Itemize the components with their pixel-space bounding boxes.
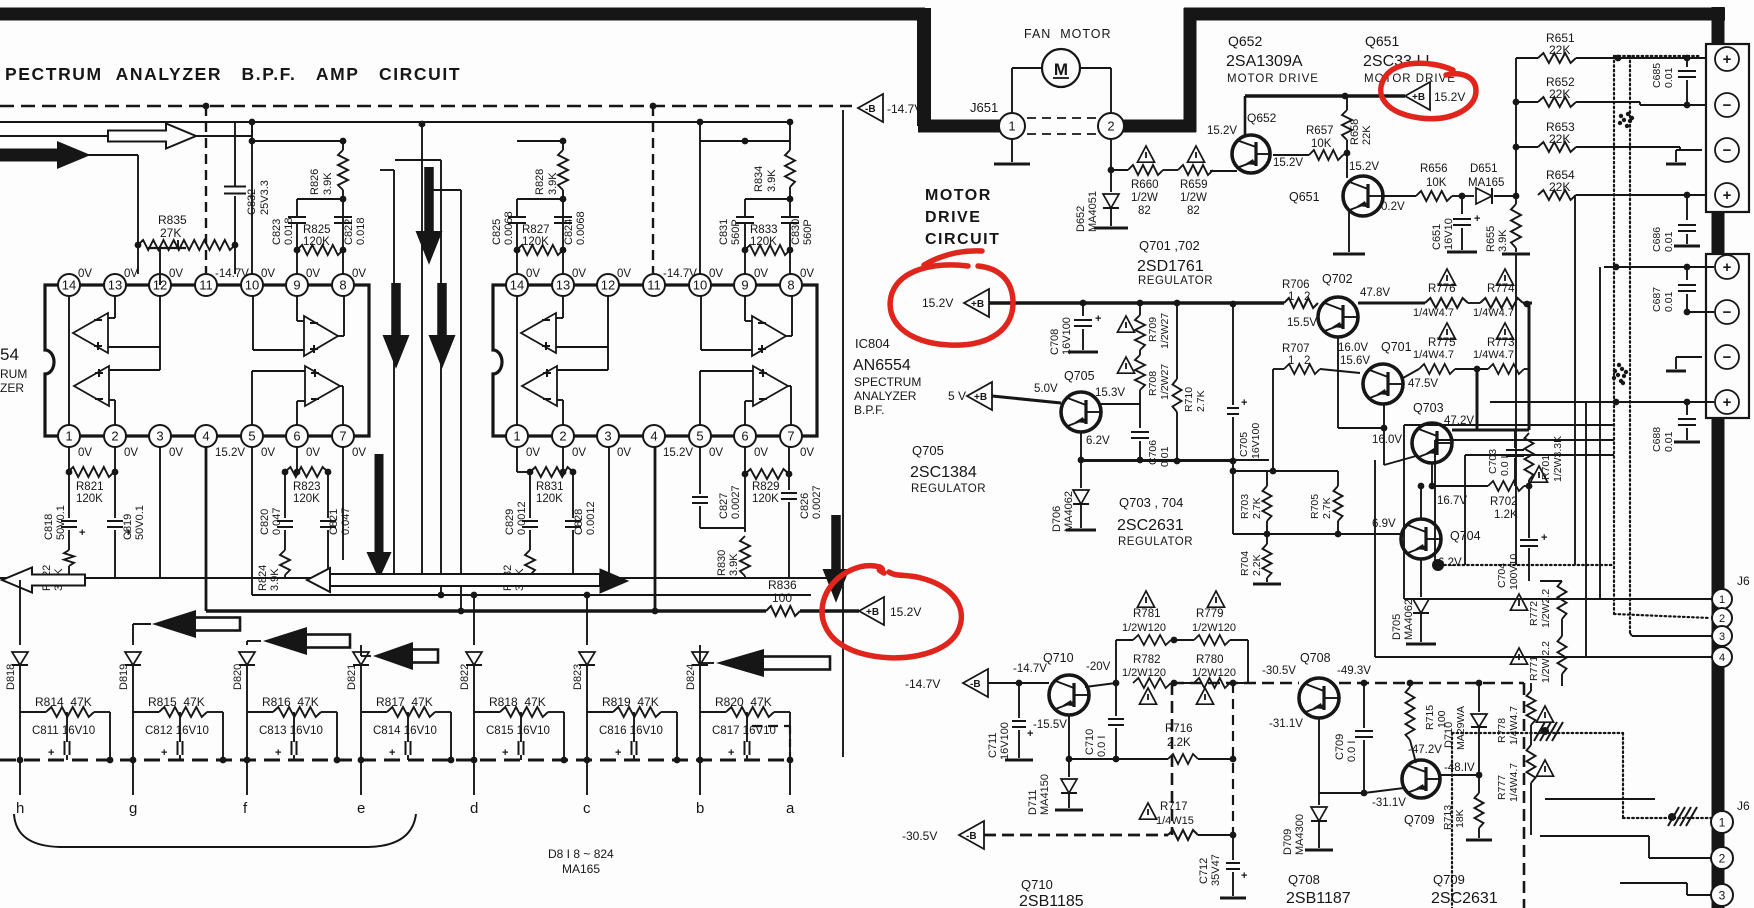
svg-text:C825: C825 bbox=[491, 219, 503, 245]
svg-text:+: + bbox=[79, 527, 85, 539]
svg-text:1/2W2.2: 1/2W2.2 bbox=[1540, 589, 1552, 628]
svg-text:Q702: Q702 bbox=[1322, 272, 1353, 286]
svg-text:+: + bbox=[1723, 51, 1732, 68]
svg-text:0V: 0V bbox=[78, 268, 92, 280]
svg-text:0.0 I: 0.0 I bbox=[1096, 736, 1108, 757]
svg-text:1: 1 bbox=[65, 429, 72, 444]
svg-text:e: e bbox=[357, 800, 365, 817]
svg-text:1.2K: 1.2K bbox=[1494, 509, 1518, 521]
svg-text:0V: 0V bbox=[526, 447, 540, 459]
svg-text:3.9K: 3.9K bbox=[269, 568, 281, 591]
svg-text:REGULATOR: REGULATOR bbox=[1138, 275, 1213, 287]
svg-text:0V: 0V bbox=[617, 447, 631, 459]
svg-text:0V: 0V bbox=[124, 268, 138, 280]
svg-text:MOTOR DRIVE: MOTOR DRIVE bbox=[1364, 73, 1456, 85]
svg-text:R827: R827 bbox=[522, 224, 550, 236]
svg-text:Q651: Q651 bbox=[1289, 190, 1320, 204]
svg-text:1/4W15: 1/4W15 bbox=[1156, 815, 1194, 827]
svg-text:2.2K: 2.2K bbox=[1167, 737, 1191, 749]
svg-text:+B: +B bbox=[1412, 92, 1425, 103]
svg-text:0.01: 0.01 bbox=[1663, 291, 1675, 312]
svg-text:3.9K: 3.9K bbox=[1497, 229, 1509, 252]
svg-text:47.5V: 47.5V bbox=[1408, 378, 1438, 390]
svg-text:15.2V: 15.2V bbox=[890, 605, 921, 619]
svg-text:D8 I 8 ~ 824: D8 I 8 ~ 824 bbox=[548, 847, 614, 861]
svg-text:4: 4 bbox=[650, 429, 657, 444]
svg-text:2: 2 bbox=[559, 429, 566, 444]
svg-text:DRIVE: DRIVE bbox=[925, 209, 981, 226]
svg-text:1/4W4.7: 1/4W4.7 bbox=[1508, 763, 1520, 802]
svg-text:0.0068: 0.0068 bbox=[575, 211, 587, 245]
svg-text:13: 13 bbox=[556, 278, 570, 293]
svg-text:C710: C710 bbox=[1084, 729, 1096, 755]
svg-text:560P: 560P bbox=[802, 219, 814, 245]
svg-text:0.0 I: 0.0 I bbox=[1499, 456, 1511, 476]
svg-text:D819: D819 bbox=[118, 664, 130, 690]
svg-text:Q703: Q703 bbox=[1413, 401, 1444, 415]
svg-text:2SC1384: 2SC1384 bbox=[910, 464, 977, 481]
svg-text:0V: 0V bbox=[754, 268, 768, 280]
svg-text:MA165: MA165 bbox=[562, 862, 600, 876]
svg-text:C811 16V10: C811 16V10 bbox=[32, 725, 95, 737]
svg-text:2.7K: 2.7K bbox=[1321, 497, 1333, 519]
svg-text:1: 1 bbox=[1719, 594, 1725, 606]
svg-text:-30.5V: -30.5V bbox=[1262, 665, 1296, 677]
svg-text:15.2V: 15.2V bbox=[1273, 157, 1303, 169]
svg-text:+: + bbox=[1723, 394, 1732, 411]
svg-text:0.0012: 0.0012 bbox=[585, 501, 597, 535]
svg-text:25V3.3: 25V3.3 bbox=[259, 180, 271, 215]
svg-text:C704: C704 bbox=[1496, 563, 1508, 588]
svg-text:C816 16V10: C816 16V10 bbox=[599, 725, 663, 737]
svg-text:11: 11 bbox=[199, 278, 213, 293]
svg-text:3.9K: 3.9K bbox=[322, 172, 334, 195]
svg-text:C813 16V10: C813 16V10 bbox=[259, 725, 323, 737]
svg-text:D821: D821 bbox=[346, 664, 358, 690]
svg-text:g: g bbox=[129, 800, 137, 817]
svg-text:0V: 0V bbox=[617, 268, 631, 280]
svg-text:AN6554: AN6554 bbox=[853, 357, 911, 374]
svg-text:R825: R825 bbox=[303, 224, 331, 236]
svg-text:0V: 0V bbox=[800, 268, 814, 280]
svg-text:R655: R655 bbox=[1485, 226, 1497, 252]
svg-text:+: + bbox=[1474, 213, 1480, 225]
svg-text:c: c bbox=[583, 800, 591, 817]
svg-text:4: 4 bbox=[1719, 652, 1725, 664]
svg-text:h: h bbox=[16, 800, 24, 817]
svg-text:+: + bbox=[502, 747, 508, 759]
svg-text:15.2V: 15.2V bbox=[663, 447, 693, 459]
svg-text:-14.7V: -14.7V bbox=[905, 677, 940, 691]
svg-text:2: 2 bbox=[1719, 851, 1726, 865]
svg-text:4: 4 bbox=[202, 429, 209, 444]
svg-text:−: − bbox=[1723, 349, 1732, 366]
svg-text:+: + bbox=[728, 747, 734, 759]
svg-text:0.01: 0.01 bbox=[1663, 67, 1675, 88]
svg-text:120K: 120K bbox=[536, 493, 563, 505]
svg-text:Q709: Q709 bbox=[1404, 813, 1435, 827]
svg-text:R771: R771 bbox=[1528, 656, 1540, 681]
svg-text:2: 2 bbox=[1107, 119, 1114, 134]
svg-text:15.2V: 15.2V bbox=[1349, 161, 1379, 173]
svg-text:5 V: 5 V bbox=[948, 389, 966, 403]
svg-text:16.0V: 16.0V bbox=[1372, 434, 1402, 446]
svg-text:D652: D652 bbox=[1075, 206, 1087, 232]
svg-text:Q705: Q705 bbox=[1064, 369, 1095, 383]
svg-text:PECTRUM ANALYZER B.P.F. A: PECTRUM ANALYZER B.P.F. AMP CIRCUIT bbox=[5, 64, 461, 84]
svg-text:C651: C651 bbox=[1431, 224, 1443, 250]
svg-text:0V: 0V bbox=[169, 268, 183, 280]
svg-text:16V10: 16V10 bbox=[1443, 218, 1455, 250]
svg-text:D823: D823 bbox=[572, 664, 584, 690]
svg-text:50V0.1: 50V0.1 bbox=[134, 505, 146, 540]
svg-text:REGULATOR: REGULATOR bbox=[911, 483, 986, 495]
svg-text:15.2V: 15.2V bbox=[215, 447, 245, 459]
svg-text:D818: D818 bbox=[5, 664, 17, 690]
svg-text:C711: C711 bbox=[987, 733, 999, 758]
svg-text:3: 3 bbox=[1719, 631, 1725, 643]
svg-text:0V: 0V bbox=[352, 447, 366, 459]
svg-text:1/2W: 1/2W bbox=[1180, 192, 1207, 204]
svg-text:0V: 0V bbox=[709, 268, 723, 280]
svg-text:14: 14 bbox=[62, 278, 76, 293]
svg-text:1 . 2: 1 . 2 bbox=[1288, 291, 1310, 303]
svg-text:15.2V: 15.2V bbox=[1434, 90, 1465, 104]
svg-text:B.P.F.: B.P.F. bbox=[854, 403, 884, 417]
svg-text:0V: 0V bbox=[261, 268, 275, 280]
svg-text:0V: 0V bbox=[261, 447, 275, 459]
svg-text:d: d bbox=[470, 800, 478, 817]
svg-text:R772: R772 bbox=[1528, 601, 1540, 626]
svg-text:C815 16V10: C815 16V10 bbox=[486, 725, 550, 737]
svg-text:R828: R828 bbox=[534, 169, 546, 195]
svg-text:2SB1187: 2SB1187 bbox=[1286, 890, 1351, 907]
svg-text:+: + bbox=[389, 747, 395, 759]
svg-text:MA4150: MA4150 bbox=[1039, 774, 1051, 815]
svg-text:C820: C820 bbox=[259, 509, 271, 535]
svg-text:Q701: Q701 bbox=[1381, 340, 1412, 354]
svg-text:MA4300: MA4300 bbox=[1294, 814, 1306, 855]
svg-text:−: − bbox=[1723, 97, 1732, 114]
svg-text:D706: D706 bbox=[1051, 506, 1063, 532]
svg-text:C831: C831 bbox=[718, 219, 730, 245]
svg-text:R703: R703 bbox=[1239, 494, 1251, 519]
svg-text:MA4062: MA4062 bbox=[1403, 599, 1415, 640]
svg-text:R701: R701 bbox=[1540, 455, 1552, 480]
svg-text:Q701 ,702: Q701 ,702 bbox=[1139, 238, 1200, 253]
svg-text:0V: 0V bbox=[306, 268, 320, 280]
svg-text:R821: R821 bbox=[76, 481, 104, 493]
svg-text:27K: 27K bbox=[160, 226, 181, 240]
svg-text:J651: J651 bbox=[970, 100, 998, 115]
svg-text:R773: R773 bbox=[1487, 337, 1515, 349]
svg-text:R829: R829 bbox=[752, 481, 780, 493]
svg-text:15.2V: 15.2V bbox=[922, 296, 953, 310]
svg-text:+: + bbox=[48, 747, 54, 759]
svg-text:b: b bbox=[696, 800, 704, 817]
svg-text:-15.5V: -15.5V bbox=[1033, 719, 1067, 731]
svg-text:R660: R660 bbox=[1131, 179, 1159, 191]
svg-text:1: 1 bbox=[513, 429, 520, 444]
svg-text:0.018: 0.018 bbox=[355, 217, 367, 245]
svg-text:C703: C703 bbox=[1487, 449, 1499, 474]
svg-text:120K: 120K bbox=[303, 236, 330, 248]
svg-text:82: 82 bbox=[1138, 205, 1151, 217]
svg-text:0.01: 0.01 bbox=[1159, 446, 1171, 467]
svg-text:R702: R702 bbox=[1490, 496, 1518, 508]
svg-text:10K: 10K bbox=[1426, 177, 1447, 189]
svg-text:1/2W120: 1/2W120 bbox=[1122, 667, 1166, 679]
svg-text:R774: R774 bbox=[1487, 283, 1515, 295]
svg-text:12: 12 bbox=[601, 278, 615, 293]
svg-text:0.01: 0.01 bbox=[1663, 231, 1675, 252]
svg-text:R835: R835 bbox=[158, 213, 187, 227]
svg-text:ZER: ZER bbox=[0, 381, 24, 395]
svg-text:-14.7V: -14.7V bbox=[215, 268, 249, 280]
svg-text:1/2W: 1/2W bbox=[1131, 192, 1158, 204]
svg-text:14: 14 bbox=[510, 278, 524, 293]
svg-text:1: 1 bbox=[1719, 815, 1726, 829]
svg-text:R776: R776 bbox=[1428, 283, 1456, 295]
svg-text:18K: 18K bbox=[1454, 809, 1466, 828]
svg-text:R779: R779 bbox=[1196, 608, 1224, 620]
svg-text:0.0027: 0.0027 bbox=[730, 485, 742, 519]
svg-text:R659: R659 bbox=[1180, 179, 1208, 191]
svg-text:82: 82 bbox=[1187, 205, 1200, 217]
svg-text:-30.5V: -30.5V bbox=[902, 829, 937, 843]
svg-text:+: + bbox=[1241, 870, 1247, 882]
svg-text:D824: D824 bbox=[685, 664, 697, 690]
svg-text:6: 6 bbox=[741, 429, 748, 444]
svg-text:+: + bbox=[161, 747, 167, 759]
svg-text:2SC2631: 2SC2631 bbox=[1431, 890, 1498, 907]
svg-text:0V: 0V bbox=[124, 447, 138, 459]
svg-text:+: + bbox=[1541, 532, 1547, 544]
svg-text:15.3V: 15.3V bbox=[1095, 387, 1125, 399]
svg-text:R716: R716 bbox=[1165, 723, 1193, 735]
svg-text:Q651: Q651 bbox=[1365, 33, 1399, 49]
svg-text:2SB1185: 2SB1185 bbox=[1019, 893, 1084, 908]
svg-text:MOTOR DRIVE: MOTOR DRIVE bbox=[1227, 73, 1319, 85]
svg-text:C708: C708 bbox=[1049, 329, 1061, 355]
svg-text:−: − bbox=[1723, 304, 1732, 321]
svg-text:R826: R826 bbox=[309, 169, 321, 195]
svg-text:R782: R782 bbox=[1133, 654, 1161, 666]
svg-text:-48.IV: -48.IV bbox=[1444, 762, 1475, 774]
svg-text:REGULATOR: REGULATOR bbox=[1118, 536, 1193, 548]
svg-text:R717: R717 bbox=[1160, 801, 1188, 813]
svg-text:C688: C688 bbox=[1651, 427, 1663, 452]
svg-text:54: 54 bbox=[0, 345, 19, 364]
svg-text:3.9K: 3.9K bbox=[728, 553, 740, 576]
svg-text:C817 16V10: C817 16V10 bbox=[712, 725, 776, 737]
svg-text:R834: R834 bbox=[753, 166, 765, 192]
svg-text:0.047: 0.047 bbox=[340, 507, 352, 535]
svg-text:120K: 120K bbox=[750, 236, 777, 248]
svg-text:9: 9 bbox=[293, 278, 300, 293]
svg-text:50V0.1: 50V0.1 bbox=[55, 505, 67, 540]
svg-text:2.7K: 2.7K bbox=[1195, 390, 1207, 412]
svg-text:R710: R710 bbox=[1183, 387, 1195, 412]
svg-text:+: + bbox=[1723, 187, 1732, 204]
svg-text:Q703 , 704: Q703 , 704 bbox=[1119, 495, 1183, 510]
svg-text:R656: R656 bbox=[1420, 163, 1448, 175]
svg-text:R715: R715 bbox=[1424, 705, 1436, 730]
svg-text:-14.7V: -14.7V bbox=[663, 268, 697, 280]
svg-text:Q652: Q652 bbox=[1247, 111, 1277, 125]
svg-text:5: 5 bbox=[248, 429, 255, 444]
svg-text:R705: R705 bbox=[1309, 494, 1321, 519]
svg-text:13: 13 bbox=[108, 278, 122, 293]
svg-text:+: + bbox=[1095, 313, 1101, 325]
svg-text:ANALYZER: ANALYZER bbox=[854, 389, 917, 403]
svg-text:D651: D651 bbox=[1470, 163, 1498, 175]
svg-text:2.7K: 2.7K bbox=[1251, 497, 1263, 519]
svg-text:1/2W27: 1/2W27 bbox=[1159, 364, 1171, 400]
svg-text:C686: C686 bbox=[1651, 227, 1663, 252]
svg-text:2SD1761: 2SD1761 bbox=[1137, 258, 1204, 275]
svg-text:R777: R777 bbox=[1496, 775, 1508, 800]
svg-text:+B: +B bbox=[866, 607, 879, 618]
svg-text:R709: R709 bbox=[1147, 317, 1159, 342]
svg-text:R708: R708 bbox=[1147, 371, 1159, 396]
svg-text:+: + bbox=[1241, 397, 1247, 409]
svg-text:C818: C818 bbox=[43, 514, 55, 540]
svg-text:RUM: RUM bbox=[0, 367, 27, 381]
svg-text:R775: R775 bbox=[1428, 337, 1456, 349]
svg-text:MA165: MA165 bbox=[1468, 177, 1504, 189]
svg-text:1/2W 2.2: 1/2W 2.2 bbox=[1540, 641, 1552, 683]
svg-text:C814 16V10: C814 16V10 bbox=[373, 725, 437, 737]
svg-text:3: 3 bbox=[156, 429, 163, 444]
svg-text:-B: -B bbox=[865, 104, 876, 115]
svg-text:C829: C829 bbox=[504, 509, 516, 535]
svg-text:IC804: IC804 bbox=[855, 336, 890, 351]
svg-text:100V10: 100V10 bbox=[1508, 554, 1520, 590]
svg-text:2.2K: 2.2K bbox=[1251, 554, 1263, 576]
svg-text:47.8V: 47.8V bbox=[1360, 287, 1390, 299]
svg-text:1/2W120: 1/2W120 bbox=[1192, 667, 1236, 679]
svg-text:R707: R707 bbox=[1282, 343, 1310, 355]
svg-text:D710: D710 bbox=[1443, 722, 1455, 748]
svg-text:SPECTRUM: SPECTRUM bbox=[854, 375, 921, 389]
svg-text:-20V: -20V bbox=[1086, 661, 1111, 673]
svg-text:R704: R704 bbox=[1239, 551, 1251, 576]
svg-text:Q652: Q652 bbox=[1228, 33, 1262, 49]
svg-text:0V: 0V bbox=[306, 447, 320, 459]
svg-text:2SA1309A: 2SA1309A bbox=[1226, 53, 1303, 70]
svg-text:Q709: Q709 bbox=[1433, 872, 1465, 887]
svg-text:D709: D709 bbox=[1282, 829, 1294, 855]
svg-text:MA4051: MA4051 bbox=[1087, 191, 1099, 232]
svg-text:J6: J6 bbox=[1737, 574, 1750, 588]
svg-text:R836: R836 bbox=[768, 578, 797, 592]
svg-text:1/2W120: 1/2W120 bbox=[1122, 622, 1166, 634]
svg-text:3.9K: 3.9K bbox=[766, 169, 778, 192]
svg-text:0V: 0V bbox=[754, 447, 768, 459]
svg-text:0.0027: 0.0027 bbox=[811, 485, 823, 519]
svg-text:CIRCUIT: CIRCUIT bbox=[925, 231, 1000, 248]
svg-text:5: 5 bbox=[696, 429, 703, 444]
svg-text:R778: R778 bbox=[1496, 718, 1508, 743]
svg-text:15.5V: 15.5V bbox=[1287, 317, 1317, 329]
svg-text:-31.1V: -31.1V bbox=[1269, 718, 1303, 730]
svg-text:0.0 I: 0.0 I bbox=[1346, 741, 1358, 762]
svg-text:+B: +B bbox=[971, 299, 984, 310]
svg-text:120K: 120K bbox=[293, 493, 320, 505]
svg-text:R831: R831 bbox=[536, 481, 564, 493]
svg-text:1/4W4.7: 1/4W4.7 bbox=[1508, 706, 1520, 745]
svg-text:8: 8 bbox=[787, 278, 794, 293]
svg-text:1/2W27: 1/2W27 bbox=[1159, 313, 1171, 349]
svg-text:0.01: 0.01 bbox=[1663, 431, 1675, 452]
svg-text:R830: R830 bbox=[716, 550, 728, 576]
svg-text:D711: D711 bbox=[1027, 790, 1039, 815]
svg-text:35V47: 35V47 bbox=[1210, 854, 1222, 886]
svg-text:R657: R657 bbox=[1306, 125, 1334, 137]
svg-text:Q710: Q710 bbox=[1021, 877, 1053, 892]
svg-text:C826: C826 bbox=[799, 493, 811, 519]
svg-text:M: M bbox=[1054, 60, 1068, 79]
svg-text:+: + bbox=[125, 527, 131, 539]
svg-text:+: + bbox=[1723, 259, 1732, 276]
svg-text:0V: 0V bbox=[78, 447, 92, 459]
svg-text:16V100: 16V100 bbox=[999, 722, 1011, 760]
svg-text:Q708: Q708 bbox=[1300, 651, 1331, 665]
svg-text:16V100: 16V100 bbox=[1250, 423, 1262, 459]
svg-text:5.0V: 5.0V bbox=[1034, 383, 1058, 395]
svg-text:0V: 0V bbox=[526, 268, 540, 280]
svg-text:16.7V: 16.7V bbox=[1437, 495, 1467, 507]
svg-text:1/4W4.7: 1/4W4.7 bbox=[1413, 349, 1454, 361]
svg-text:2: 2 bbox=[1719, 613, 1725, 625]
svg-text:+: + bbox=[275, 747, 281, 759]
svg-text:MA4062: MA4062 bbox=[1063, 491, 1075, 532]
svg-text:FAN MOTOR: FAN MOTOR bbox=[1024, 27, 1112, 41]
svg-text:D705: D705 bbox=[1391, 614, 1403, 640]
svg-text:R658: R658 bbox=[1349, 119, 1361, 145]
svg-text:C812 16V10: C812 16V10 bbox=[145, 725, 209, 737]
svg-text:8: 8 bbox=[339, 278, 346, 293]
svg-text:0.0012: 0.0012 bbox=[516, 501, 528, 535]
svg-text:R823: R823 bbox=[293, 481, 321, 493]
svg-text:120K: 120K bbox=[752, 493, 779, 505]
svg-text:1/2W120: 1/2W120 bbox=[1192, 622, 1236, 634]
svg-text:0V: 0V bbox=[800, 447, 814, 459]
svg-text:MOTOR: MOTOR bbox=[925, 187, 992, 204]
svg-text:MA29WA: MA29WA bbox=[1455, 706, 1467, 750]
svg-text:0V: 0V bbox=[352, 268, 366, 280]
svg-text:-B: -B bbox=[966, 831, 977, 842]
svg-text:−: − bbox=[1723, 142, 1732, 159]
svg-text:16V100: 16V100 bbox=[1061, 317, 1073, 355]
svg-text:2: 2 bbox=[111, 429, 118, 444]
svg-text:16.0V: 16.0V bbox=[1338, 342, 1368, 354]
svg-text:Q710: Q710 bbox=[1043, 651, 1074, 665]
svg-text:C685: C685 bbox=[1651, 63, 1663, 88]
svg-text:R833: R833 bbox=[750, 224, 778, 236]
svg-text:0V: 0V bbox=[572, 268, 586, 280]
svg-text:C712: C712 bbox=[1198, 858, 1210, 884]
svg-text:C705: C705 bbox=[1238, 432, 1250, 457]
svg-text:10K: 10K bbox=[1311, 138, 1332, 150]
svg-text:3: 3 bbox=[1719, 888, 1726, 902]
svg-text:C827: C827 bbox=[718, 493, 730, 519]
svg-text:0.018: 0.018 bbox=[283, 217, 295, 245]
svg-text:0.2V: 0.2V bbox=[1381, 201, 1405, 213]
svg-text:2SC2631: 2SC2631 bbox=[1117, 517, 1184, 534]
svg-text:D820: D820 bbox=[232, 664, 244, 690]
